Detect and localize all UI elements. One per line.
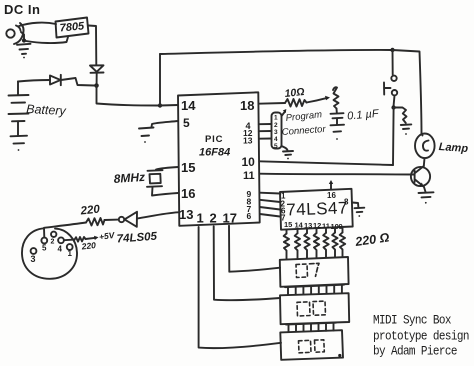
wire PIC pin 2 to display DS2 (214, 226, 280, 300)
wire PIC pin 8 to 74LS47 pin 2 (260, 200, 280, 202)
MIDI pin 3 (31, 248, 37, 254)
wire PIC pin 12 to program connector (259, 130, 272, 132)
junction below switch (391, 105, 395, 109)
ground GND6 (switch pulldown) (401, 124, 412, 135)
wire PIC pin 6 to 74LS47 pin 7 (260, 214, 280, 217)
trimpot RV1 (333, 87, 339, 108)
label 220 (series resistor) (79, 203, 101, 217)
pin label 16 (181, 186, 195, 201)
diode D2 (battery, pointing right) (50, 75, 61, 85)
label 220 (pullup) (80, 240, 96, 252)
transistor Q1 (411, 166, 430, 193)
pin label 10 (242, 155, 256, 169)
wire arrow to +5V (86, 236, 99, 240)
resistor R3 220 (86, 218, 105, 226)
wire MIDI pin 5 up and to resistor 220 (44, 223, 86, 238)
svg-text:74LS05: 74LS05 (116, 231, 158, 246)
svg-text:220: 220 (79, 203, 101, 217)
wire riser up to top rail (159, 54, 161, 106)
pin label 17 (223, 211, 237, 226)
pin label 12 (243, 128, 253, 138)
IC U2 PIC 16F84 (178, 92, 260, 226)
svg-text:1: 1 (274, 115, 278, 122)
junction top rail at switch (390, 48, 394, 52)
pin label 18 (240, 98, 254, 113)
ground GND3 (PIC pin 5) (139, 128, 154, 143)
svg-text:220 Ω: 220 Ω (353, 230, 390, 249)
svg-text:Program: Program (285, 109, 322, 124)
pin label 15 (181, 160, 195, 175)
pin label 10 (331, 222, 339, 231)
svg-text:1: 1 (68, 249, 73, 258)
svg-text:DC In: DC In (4, 2, 40, 17)
pin label 11 (322, 222, 330, 231)
wire PIC pin 15 to crystal (156, 167, 178, 170)
wire top rail to right corner and down to lamp (393, 50, 422, 134)
battery BT1 (9, 82, 29, 136)
svg-text:220: 220 (80, 240, 96, 252)
MIDI pin 5 (41, 238, 47, 244)
svg-text:7805: 7805 (59, 20, 85, 34)
svg-text:8: 8 (344, 198, 349, 207)
pin label 2 (74LS47) (281, 200, 286, 209)
wire switch bottom to junction (393, 96, 396, 106)
svg-text:5: 5 (42, 244, 47, 253)
wire PIC pin 18 to resistor 10ohm (259, 102, 285, 105)
connector J2 MIDI DIN socket (22, 228, 77, 279)
inverter U4 74LS05 (119, 212, 137, 227)
svg-text:2: 2 (274, 122, 278, 129)
pin label 8 (74LS47) (344, 198, 349, 207)
resistor network 220 ohm (7 resistors) (284, 232, 346, 258)
svg-text:18: 18 (240, 98, 254, 113)
svg-text:10: 10 (242, 155, 256, 169)
svg-text:2: 2 (210, 211, 217, 226)
wire switch top from rail junction (392, 50, 394, 75)
svg-text:+5V: +5V (98, 230, 116, 242)
net label DC In (4, 2, 40, 17)
svg-text:11: 11 (243, 170, 255, 182)
ground GND2 (battery) (11, 136, 28, 151)
pin label 6 (247, 211, 252, 221)
svg-text:14: 14 (181, 98, 196, 113)
pin label 8 (247, 197, 252, 207)
label Battery (26, 102, 67, 118)
ground GND7 (transistor emitter) (419, 192, 434, 203)
svg-text:Lamp: Lamp (438, 141, 468, 155)
svg-text:2: 2 (51, 239, 55, 246)
ground GND1 (at DC jack) (17, 44, 31, 59)
wire VCC node down and right to pin 14 riser (97, 86, 159, 106)
wire PIC pin 4 to program connector (259, 123, 272, 125)
svg-text:1: 1 (197, 211, 204, 226)
junction node VCC (94, 83, 99, 88)
svg-text:16: 16 (181, 186, 195, 201)
svg-text:MIDI Sync Box: MIDI Sync Box (373, 313, 451, 328)
display DS2 7-segment (280, 293, 349, 324)
junction node at riser (158, 103, 162, 107)
ground GND5 (program connector) (282, 146, 294, 159)
wire jack to 7805 (19, 23, 56, 26)
wire PIC pin 1 to display DS3 (199, 227, 281, 348)
resistor R1 10ohm (285, 99, 307, 107)
MIDI pin labels (31, 239, 73, 265)
wire ground node to 7805 common pin (26, 37, 68, 43)
wire MIDI pin 4 to resistor 220 pullup (64, 239, 75, 242)
connector CN1 program connector (272, 113, 282, 151)
junction jack-ground (22, 38, 26, 42)
crystal X1 8MHz (147, 170, 163, 187)
capacitor C1 0.1uF (331, 109, 344, 125)
label 0.1 uF (347, 108, 381, 123)
wire resistor R3 to inverter (105, 219, 119, 221)
svg-text:3: 3 (274, 129, 278, 136)
svg-text:5: 5 (183, 116, 190, 130)
pin label 4 (246, 121, 251, 131)
MIDI pin 1 (67, 244, 73, 250)
wire resistor to trimpot with arrow (307, 96, 331, 103)
MIDI pin 4 (58, 237, 64, 243)
wire PIC pin 5 to ground (152, 121, 179, 127)
label 10ohm (284, 86, 305, 100)
wire top +5V rail (160, 50, 391, 54)
wire PIC pin 7 to 74LS47 pin 6 (260, 207, 280, 210)
svg-text:13: 13 (179, 207, 193, 222)
label Lamp (438, 141, 468, 155)
wire 74LS47 pin 8 to ground (352, 203, 358, 208)
svg-text:8MHz: 8MHz (113, 170, 145, 186)
pin label 13 (304, 221, 312, 230)
svg-text:Connector: Connector (281, 124, 326, 138)
title text MIDI Sync Box (373, 313, 469, 359)
power arrow +5V on connector (282, 109, 287, 116)
label Program Connector (281, 109, 326, 138)
lamp LP1 (415, 134, 435, 167)
svg-text:Battery: Battery (26, 102, 67, 118)
wire PIC pin 17 to display DS1 (229, 226, 280, 272)
svg-text:16F84: 16F84 (199, 147, 230, 159)
svg-text:10Ω: 10Ω (284, 86, 305, 100)
svg-text:0.1 µF: 0.1 µF (347, 108, 381, 123)
svg-text:6: 6 (247, 211, 252, 221)
pin label 15 (284, 220, 292, 229)
wire 7805 output down to diode D1 (89, 26, 97, 65)
pin label 1 (197, 211, 204, 226)
resistor R2 pulldown (394, 108, 407, 124)
svg-text:17: 17 (223, 211, 237, 226)
connector J1 DC jack (6, 23, 24, 44)
pin label 2 (210, 211, 217, 226)
label 8MHz (113, 170, 145, 186)
wire inverter to PIC pin 13 (137, 212, 178, 218)
svg-text:13: 13 (304, 221, 312, 230)
IC U3 74LS47 (280, 189, 353, 230)
svg-text:prototype design: prototype design (373, 329, 469, 344)
svg-text:by Adam Pierce: by Adam Pierce (373, 344, 457, 359)
label 220 ohm (353, 230, 390, 249)
svg-text:PIC: PIC (205, 134, 223, 145)
svg-text:15: 15 (284, 220, 292, 229)
pins DS2 to DS3 (286, 323, 336, 332)
pin label 6 (74LS47) (281, 207, 286, 216)
svg-text:3: 3 (31, 254, 36, 264)
pin label 1 (74LS47) (281, 192, 286, 201)
wire junction down to pin 10 rail (392, 108, 395, 166)
diode D1 (from regulator, pointing down) (90, 65, 104, 83)
pin label 12 (313, 221, 321, 230)
wire battery plus to diode D2 (18, 80, 50, 82)
svg-text:4: 4 (58, 245, 63, 254)
pin label 9 (247, 189, 252, 199)
wire diode D2 to junction node VCC (61, 78, 94, 86)
ground GND8 (74LS47 pin 8) (355, 208, 365, 217)
pin label 7 (247, 204, 252, 214)
svg-text:16: 16 (327, 191, 336, 200)
display DS1 7-segment (280, 257, 349, 287)
wires 74LS47 outputs to resistor network (287, 227, 343, 234)
svg-text:15: 15 (181, 160, 195, 175)
wire PIC pin 10 to push button node (259, 161, 393, 165)
pin label 13 (left) (179, 207, 193, 222)
pin label 7 (74LS47) (281, 214, 286, 223)
regulator U1 7805 (56, 18, 89, 38)
wire PIC pin 13 to program connector (259, 138, 272, 140)
wire crystal to PIC pin 16 (152, 187, 178, 196)
power arrow +5V on 74LS47 pin 16 (329, 180, 333, 189)
svg-text:74LS47: 74LS47 (286, 198, 348, 219)
pins DS1 to DS2 (285, 285, 344, 295)
pin label 11 (243, 170, 255, 182)
svg-text:5: 5 (274, 143, 278, 150)
pin label 14 (181, 98, 196, 113)
pin label 5 (183, 116, 190, 130)
svg-text:13: 13 (243, 136, 253, 146)
wire PIC pin 9 to 74LS47 pin 1 (260, 192, 280, 195)
display DS3 7-segment (280, 330, 343, 360)
pin label 9 (339, 222, 343, 231)
svg-text:14: 14 (295, 220, 304, 229)
ground GND4 (capacitor C1) (331, 125, 345, 140)
MIDI pin 2 (51, 232, 56, 237)
wire riser node to PIC pin 14 (160, 104, 178, 107)
pin label 14 (295, 220, 304, 229)
switch SW1 push button (384, 76, 397, 96)
resistor R4 220 pullup (75, 237, 86, 242)
pin label 13 (right) (243, 136, 253, 146)
label 74LS05 (116, 231, 158, 246)
pin label 16 (74LS47) (327, 191, 336, 200)
wire PIC pin 11 to transistor base (259, 173, 414, 176)
power label +5V (98, 230, 116, 242)
